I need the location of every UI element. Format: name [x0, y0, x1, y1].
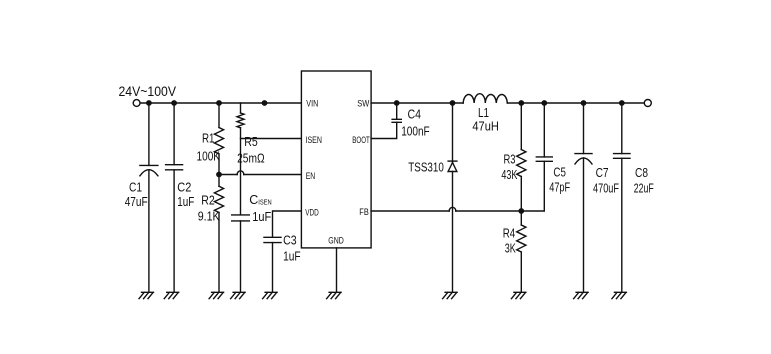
wire: top input rail — [140, 102, 301, 104]
ground (C1) — [139, 292, 154, 298]
svg-text:22uF: 22uF — [634, 182, 654, 196]
svg-text:1uF: 1uF — [177, 195, 194, 209]
capacitor C1 — [148, 103, 150, 165]
svg-text:C8: C8 — [635, 166, 648, 180]
svg-text:TSS310: TSS310 — [408, 160, 444, 174]
capacitor C7 — [583, 103, 585, 154]
svg-text:1uF: 1uF — [252, 210, 271, 224]
svg-text:C5: C5 — [553, 165, 566, 179]
ground (R2) — [209, 292, 224, 298]
svg-text:SW: SW — [357, 99, 369, 109]
inductor L1 — [463, 94, 507, 103]
svg-text:25mΩ: 25mΩ — [237, 152, 265, 166]
output terminal — [644, 100, 651, 107]
capacitor C4 — [396, 103, 398, 119]
svg-text:L1: L1 — [478, 106, 489, 120]
svg-text:3K: 3K — [505, 242, 516, 256]
capacitor C2 — [173, 103, 175, 292]
svg-text:C1: C1 — [129, 180, 142, 194]
svg-text:100K: 100K — [197, 150, 221, 164]
capacitor C8 — [621, 103, 623, 292]
svg-text:R4: R4 — [503, 227, 516, 241]
node R1/R2/EN junction — [216, 172, 222, 178]
ground (R4) — [511, 292, 526, 298]
wire: ISEN pin to R5 — [241, 138, 302, 140]
wire: EN pin to R1/R2 junction (hop over R5 column) — [219, 174, 301, 176]
resistor R4 — [520, 211, 522, 225]
svg-text:VIN: VIN — [306, 99, 318, 109]
svg-text:47uF: 47uF — [125, 195, 148, 209]
diode TSS310 — [452, 103, 454, 164]
resistor R2 — [218, 175, 220, 187]
svg-text:C4: C4 — [408, 107, 422, 121]
svg-text:47uH: 47uH — [472, 120, 499, 134]
svg-text:BOOT: BOOT — [352, 135, 370, 145]
svg-text:100nF: 100nF — [401, 124, 430, 138]
op-amp U1 (regulator IC box) — [301, 71, 371, 248]
resistor R1 — [218, 103, 220, 128]
svg-text:GND: GND — [328, 235, 344, 245]
wire: FB pin to divider (hop over diode column) — [371, 161, 544, 211]
svg-text:R1: R1 — [202, 132, 215, 146]
capacitor CISEN — [232, 215, 250, 221]
svg-text:1uF: 1uF — [283, 250, 301, 264]
ground (IC GND) — [327, 292, 342, 298]
wire: VDD pin to C3 — [273, 211, 302, 237]
capacitor C5 — [543, 103, 545, 157]
svg-text:R2: R2 — [201, 194, 215, 208]
svg-text:C7: C7 — [596, 166, 609, 180]
svg-text:24V~100V: 24V~100V — [119, 84, 177, 99]
svg-text:C3: C3 — [283, 234, 297, 248]
svg-text:C2: C2 — [177, 180, 191, 194]
wire hop: FB line over diode column — [449, 207, 456, 211]
wire: GND pin down — [336, 248, 338, 292]
svg-text:ISEN: ISEN — [306, 135, 323, 145]
ground (C2) — [164, 292, 179, 298]
svg-text:43K: 43K — [501, 168, 517, 182]
ground (diode) — [443, 292, 458, 298]
input terminal — [133, 100, 140, 107]
svg-text:CISEN: CISEN — [249, 193, 272, 207]
svg-text:9.1K: 9.1K — [198, 209, 221, 223]
svg-text:R3: R3 — [504, 153, 516, 167]
svg-text:R5: R5 — [244, 135, 258, 149]
capacitor C3 — [264, 237, 281, 242]
node VIN/R1 junction dot — [262, 100, 268, 106]
node FB/R3/R4 junction — [518, 208, 524, 214]
ground (C3) — [263, 292, 278, 298]
svg-text:EN: EN — [306, 171, 316, 181]
svg-text:470uF: 470uF — [593, 182, 619, 196]
ground (CISEN) — [231, 292, 246, 298]
svg-text:VDD: VDD — [305, 207, 319, 217]
resistor R5 (current sense) — [240, 103, 242, 113]
ground (C7) — [574, 292, 589, 298]
ground (C8) — [612, 292, 627, 298]
svg-text:FB: FB — [359, 207, 369, 217]
svg-text:47pF: 47pF — [549, 181, 570, 195]
wire: SW rail to output — [371, 102, 644, 104]
resistor R3 — [520, 103, 522, 150]
